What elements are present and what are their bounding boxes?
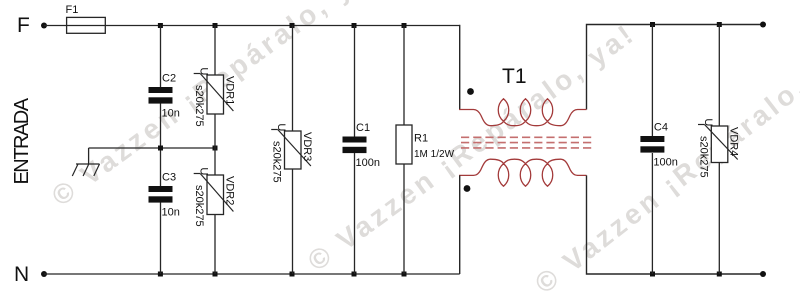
wire ground drop (88, 148, 90, 164)
wire R1 branch top (403, 26, 405, 126)
fuse F1 (66, 4, 106, 33)
node top rail at VDR1 branch (213, 23, 218, 28)
svg-text:VDR3: VDR3 (301, 132, 313, 161)
svg-text:10n: 10n (162, 108, 180, 120)
wire F terminal to fuse (44, 25, 67, 27)
node bottom rail at VDR4 branch (717, 272, 722, 277)
node bottom rail at C3 branch (158, 272, 163, 277)
label F (phase input) (17, 14, 30, 37)
varistor VDR3 (271, 123, 313, 182)
node mid at VDR1/VDR2 (213, 146, 218, 151)
svg-text:10n: 10n (162, 207, 180, 219)
wire mid node horizontal (ground link) (89, 147, 215, 149)
node top rail at C2 branch (158, 23, 163, 28)
wire transformer primary lead left (459, 25, 461, 110)
transformer T1 secondary winding (459, 159, 587, 186)
wire VDR3 to bottom rail (292, 169, 294, 274)
svg-text:F1: F1 (66, 4, 79, 16)
svg-text:C3: C3 (162, 172, 176, 184)
wire mid node to C3 (160, 148, 162, 187)
label N (neutral input) (14, 263, 29, 286)
wire bottom rail left (N to transformer) (44, 273, 460, 275)
wire VDR4 branch top (718, 25, 720, 127)
transformer T1 core (461, 137, 593, 148)
phase dot secondary (464, 185, 471, 192)
svg-text:U: U (702, 118, 714, 126)
wire VDR2 to bottom rail (214, 215, 216, 275)
label T1 (502, 65, 527, 88)
terminal dot output top (760, 22, 766, 28)
node bottom rail at C1 branch (352, 272, 357, 277)
wire transformer primary lead right (587, 25, 764, 110)
svg-text:U: U (275, 123, 287, 131)
transformer T1 primary winding (459, 99, 587, 126)
node bottom rail at C4 branch (650, 272, 655, 277)
wire C1 branch top (354, 26, 356, 138)
wire C1 to bottom rail (354, 153, 356, 274)
svg-text:ENTRADA: ENTRADA (11, 97, 33, 184)
wire VDR4 to bottom rail (718, 163, 720, 275)
wire VDR3 branch top (292, 26, 294, 132)
svg-text:N: N (14, 263, 29, 286)
svg-text:F: F (17, 14, 30, 37)
capacitor C3 (149, 172, 180, 219)
wire mid node to VDR2 (214, 148, 216, 176)
varistor VDR4 (697, 118, 739, 177)
resistor R1 (396, 125, 455, 164)
ground (chassis) symbol (72, 164, 99, 176)
wire C2 branch top (160, 26, 162, 88)
svg-text:s20k275: s20k275 (271, 141, 283, 183)
capacitor C2 (149, 73, 180, 120)
terminal dot F (41, 23, 47, 29)
svg-text:1M 1/2W: 1M 1/2W (414, 149, 455, 160)
varistor VDR2 (193, 167, 235, 226)
wire C3 to bottom rail (160, 203, 162, 275)
node bottom rail at VDR3 branch (290, 272, 295, 277)
terminal dot N (41, 271, 47, 277)
node top rail at R1 branch (402, 23, 407, 28)
svg-text:C4: C4 (654, 122, 668, 134)
node top rail at VDR3 branch (290, 23, 295, 28)
node top rail at C4 branch (650, 22, 655, 27)
svg-text:VDR1: VDR1 (223, 76, 235, 105)
svg-text:s20k275: s20k275 (193, 185, 205, 227)
terminal dot output bottom (760, 271, 766, 277)
wire C4 branch top (651, 25, 653, 137)
varistor VDR1 (193, 67, 235, 126)
svg-text:100n: 100n (653, 157, 677, 169)
svg-text:VDR4: VDR4 (728, 127, 740, 156)
wire transformer secondary lead left (459, 175, 461, 274)
node bottom rail at VDR2 branch (213, 272, 218, 277)
svg-text:U: U (198, 167, 210, 175)
svg-text:100n: 100n (356, 157, 380, 169)
wire C2 to mid node (160, 104, 162, 149)
svg-text:VDR2: VDR2 (223, 176, 235, 205)
node bottom rail at R1 branch (402, 272, 407, 277)
wire R1 to bottom rail (403, 164, 405, 274)
node top rail at VDR4 branch (717, 22, 722, 27)
svg-text:s20k275: s20k275 (697, 136, 709, 178)
node top rail at C1 branch (352, 23, 357, 28)
svg-text:T1: T1 (502, 65, 527, 88)
label ENTRADA (11, 97, 33, 184)
svg-text:s20k275: s20k275 (193, 85, 205, 127)
svg-text:R1: R1 (414, 133, 428, 145)
node mid at C2/C3 (158, 146, 163, 151)
wire transformer secondary lead right (587, 175, 764, 274)
wire VDR1 branch top (214, 26, 216, 76)
svg-text:C1: C1 (356, 122, 370, 134)
capacitor C4 (640, 122, 677, 169)
phase dot primary (467, 88, 474, 95)
svg-text:C2: C2 (162, 73, 176, 85)
wire top rail left (fuse to transformer) (105, 25, 459, 27)
wire C4 to bottom rail (651, 153, 653, 274)
wire VDR1 to mid node (214, 114, 216, 148)
svg-text:U: U (198, 67, 210, 75)
capacitor C1 (343, 122, 380, 169)
